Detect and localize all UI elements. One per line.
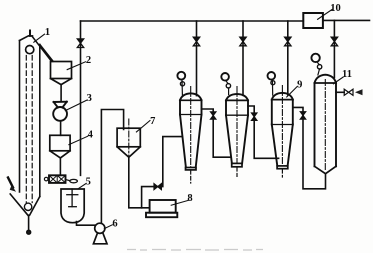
svg-text:4: 4 [88,130,94,141]
svg-text:11: 11 [342,69,352,80]
svg-text:9: 9 [297,80,302,91]
svg-text:5: 5 [86,177,91,188]
svg-text:1: 1 [45,27,50,38]
svg-text:2: 2 [86,55,91,66]
svg-text:6: 6 [112,219,117,230]
svg-text:8: 8 [187,193,192,204]
svg-text:3: 3 [87,93,92,104]
svg-text:10: 10 [330,3,341,14]
svg-text:7: 7 [150,116,155,127]
